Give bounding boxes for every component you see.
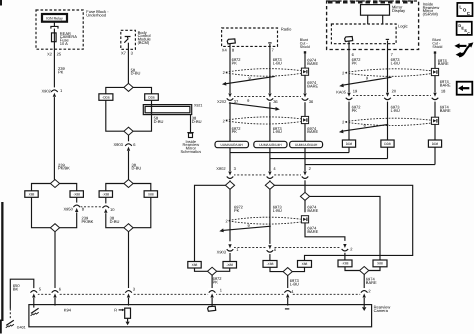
svg-text:PK: PK — [352, 108, 358, 113]
svg-text:L-BU: L-BU — [391, 108, 400, 113]
splice loop2 bottom — [124, 224, 133, 232]
svg-text:18: 18 — [441, 89, 446, 94]
svg-text:Shield: Shield — [300, 45, 310, 49]
svg-text:PK: PK — [232, 129, 238, 134]
wire loop4 right branch — [275, 185, 413, 260]
off-page terminator — [187, 132, 193, 134]
svg-text:Radio: Radio — [281, 27, 292, 32]
wire to -X88 loop3 — [229, 253, 231, 262]
wire 6974 BARE to camera pin 2 — [363, 275, 365, 289]
svg-text:-X88: -X88 — [267, 262, 274, 266]
svg-text:BARE: BARE — [440, 108, 451, 113]
wire to camera pin 3 — [128, 232, 130, 289]
wire DD6 down — [133, 100, 151, 131]
svg-text:BARE: BARE — [307, 83, 318, 88]
camera internal ground — [31, 308, 39, 316]
twist arrow 9 (mid lower) — [229, 103, 277, 109]
scan mark top left — [0, 0, 2, 6]
wire -DD6 down — [106, 100, 124, 131]
wire loop2 left down — [106, 197, 124, 227]
nav icon back — [457, 82, 473, 95]
svg-text:X88: X88 — [192, 263, 198, 267]
svg-text:(ISRVM): (ISRVM) — [423, 12, 439, 17]
ISRVM box — [327, 1, 419, 50]
svg-text:X903: X903 — [217, 249, 227, 254]
BCM box — [121, 30, 136, 49]
camera connector row dashes — [34, 293, 364, 295]
shield tap square (bottom) — [301, 216, 308, 223]
twisted pair dashes (mid upper) — [226, 69, 301, 77]
svg-text:PK: PK — [58, 69, 64, 74]
nav icon DESC — [457, 22, 472, 35]
wire X902-4 to splice — [269, 180, 271, 181]
wire 6972 PK (mirror) — [348, 44, 350, 93]
camera minus pin — [285, 308, 289, 310]
twist arrow 9 (right second) — [342, 124, 388, 131]
twisted pair dashes (bottom) — [229, 217, 301, 224]
fuse F (REAR CAMERA Fuse 10 A) — [52, 33, 57, 42]
wire 38 D-BU stub to mirror schematics — [190, 115, 192, 133]
relay contact pins — [51, 22, 58, 29]
connector X903 pin 6 (bottom row) — [266, 245, 274, 255]
svg-text:Shield: Shield — [432, 45, 442, 49]
splice loop5 rejoin — [360, 267, 369, 275]
wire loop1 left down — [32, 197, 51, 227]
scan mark bottom left — [0, 320, 2, 334]
svg-text:10 A: 10 A — [60, 41, 68, 46]
svg-text:Display: Display — [392, 8, 405, 13]
connector X903 pin 6 — [125, 141, 133, 151]
connector -X88 (loop3 right) — [223, 262, 237, 269]
BCM driver switch — [124, 37, 130, 43]
svg-text:BARE: BARE — [440, 82, 451, 87]
svg-text:PK: PK — [213, 280, 219, 285]
wire 6972 PK (radio) — [229, 46, 231, 93]
wire loop5 branch to rejoin — [369, 267, 380, 271]
svg-text:X921: X921 — [194, 104, 202, 108]
shield tap square (mid second) — [301, 116, 308, 123]
twist arrow 9 (right upper) — [343, 77, 392, 85]
wire loop4 main to rejoin — [270, 267, 283, 271]
connector X88 (loop4 branch) — [298, 261, 312, 268]
wire loop1 right — [60, 184, 77, 191]
svg-text:L-BU: L-BU — [391, 60, 400, 65]
svg-text:Schematics: Schematics — [180, 149, 201, 154]
svg-text:D-BU: D-BU — [154, 119, 164, 124]
svg-text:D-BU: D-BU — [132, 166, 142, 171]
connector row X202 dashes — [234, 96, 302, 98]
logic minus pin — [386, 38, 389, 40]
shield tap square (mid upper) — [301, 68, 308, 75]
svg-text:C: C — [467, 31, 470, 36]
connector camera pin 5 — [30, 288, 38, 298]
splice loop4 top — [265, 181, 274, 189]
svg-text:X88: X88 — [377, 262, 383, 266]
wire 6974 BARE to X903 pin 2 — [305, 223, 345, 241]
svg-text:X88: X88 — [302, 262, 308, 266]
svg-text:DD6: DD6 — [148, 95, 155, 99]
wire to DD6 — [133, 87, 151, 93]
connector X921 bank — [143, 105, 191, 115]
mirror display unit — [361, 5, 390, 16]
svg-text:BK: BK — [13, 286, 19, 291]
wire loop3 left to rejoin — [195, 268, 208, 271]
wire 650 BK ground path — [10, 279, 34, 308]
svg-text:X902: X902 — [41, 88, 51, 93]
connector -X88 (loop4 main) — [263, 261, 277, 268]
connector -DD6 — [99, 94, 113, 101]
svg-text:D-BU: D-BU — [131, 71, 141, 76]
svg-text:PK: PK — [232, 60, 238, 65]
wire 6973 L-BU (mirror) — [387, 44, 389, 93]
connector -X88 (loop5 main) — [338, 260, 352, 267]
wires option blocks to X902 — [229, 148, 231, 172]
option block UUM/UUR/U4H 3 — [290, 141, 323, 147]
svg-text:R: R — [114, 307, 117, 312]
wire loop5 right branch — [310, 196, 380, 260]
wires DD8 down to merges — [348, 147, 350, 152]
connector KA05 pin 20 — [384, 92, 392, 102]
wires KA05 to DD8 — [348, 102, 350, 140]
wire loop3 main down — [229, 189, 231, 241]
splice loop5 top — [300, 192, 309, 200]
wires X202 to option blocks — [229, 102, 231, 141]
svg-text:20: 20 — [392, 89, 397, 94]
wire loop3 right to rejoin — [217, 268, 230, 271]
connector camera pin 3 — [125, 288, 133, 298]
svg-text:-X88: -X88 — [342, 262, 349, 266]
svg-text:L-BU: L-BU — [273, 208, 282, 213]
svg-text:L-BU: L-BU — [290, 281, 299, 286]
connector camera pin 4 — [284, 288, 292, 298]
svg-text:-X88: -X88 — [102, 192, 109, 196]
wire 6974 BARE (right) blunt end — [434, 51, 436, 53]
wire 239 PK/BK — [53, 97, 55, 180]
splice loop1 bottom — [50, 224, 59, 232]
svg-text:Underhood: Underhood — [86, 13, 106, 18]
connector -X88 (loop1 right) — [70, 191, 83, 198]
svg-text:IGN Relay: IGN Relay — [46, 16, 63, 20]
wire loop1 left — [32, 184, 51, 191]
svg-text:X903: X903 — [114, 142, 124, 147]
wire loop4 branch to rejoin — [292, 267, 304, 271]
wire loop1 right down — [60, 197, 77, 227]
svg-text:UUM/UUR/U4H: UUM/UUR/U4H — [295, 143, 318, 147]
camera video input arrow — [362, 307, 366, 311]
svg-text:X88: X88 — [29, 192, 35, 196]
wire DD8-3 merge — [305, 164, 435, 166]
wire loop4 main down — [269, 189, 271, 244]
svg-text:KA05: KA05 — [336, 89, 347, 94]
svg-text:D-BU: D-BU — [192, 119, 202, 124]
wire loop5 main down — [304, 200, 306, 212]
connector X902 pin 1 — [50, 87, 58, 97]
splice loop1 top — [50, 180, 59, 188]
connector DD6 — [145, 94, 159, 101]
svg-text:K94: K94 — [64, 308, 72, 313]
shield tap square (right second) — [431, 117, 438, 124]
wire DD8-2 merge — [270, 158, 388, 160]
svg-text:Camera: Camera — [374, 308, 389, 313]
connector DD8 1 — [342, 140, 355, 147]
connector X88 (loop2 right) — [144, 191, 157, 198]
svg-text:36: 36 — [273, 99, 278, 104]
splice loop3 top — [225, 181, 234, 189]
wire 6972 PK to camera pin 1 — [211, 275, 213, 288]
camera pin stubs into box — [33, 298, 35, 308]
svg-text:X950: X950 — [64, 207, 74, 212]
twisted pair dashes (mid second) — [226, 117, 301, 124]
svg-text:19: 19 — [353, 89, 358, 94]
connector -X88 (loop2 left) — [99, 191, 112, 198]
splice node (DD6 rejoin) — [124, 127, 133, 135]
svg-text:X902: X902 — [216, 166, 226, 171]
option block UUM/UUR/U4H 1 — [215, 141, 249, 147]
svg-text:UUM/UUR/U4H: UUM/UUR/U4H — [221, 143, 244, 147]
connector KA05 pin 19 — [345, 92, 353, 102]
connector X902 pin 2 — [301, 171, 309, 181]
logic driver icon — [345, 37, 353, 42]
wire 58 D-BU — [127, 43, 129, 84]
connector X202 pin 37 — [226, 93, 234, 103]
svg-text:BARE: BARE — [366, 280, 377, 285]
ground G401 — [6, 320, 14, 328]
wire loop2 right down — [133, 197, 151, 227]
svg-text:DD8: DD8 — [384, 142, 391, 146]
svg-text:X88: X88 — [148, 192, 154, 196]
svg-text:BARE: BARE — [307, 208, 318, 213]
svg-text:X7: X7 — [121, 50, 127, 55]
svg-text:DD8: DD8 — [346, 142, 353, 146]
wire 6974 BARE (mid) blunt end — [304, 51, 306, 53]
wire loop2 left — [106, 184, 124, 191]
connector camera pin 2 — [360, 288, 368, 298]
scan bar left — [1, 202, 3, 321]
splice node (DD6 split) — [124, 83, 133, 91]
wire 6973 L-BU to camera pin 4 — [287, 276, 289, 289]
svg-text:-DD6: -DD6 — [102, 95, 110, 99]
wire 6973 L-BU (radio) — [269, 46, 271, 93]
svg-text:BARE: BARE — [438, 61, 449, 66]
svg-text:-X88: -X88 — [73, 192, 80, 196]
svg-text:UUM/UUR/U4H: UUM/UUR/U4H — [259, 143, 282, 147]
wire X902-3 to splice — [229, 180, 231, 181]
connector row KA05 dashes — [353, 95, 432, 97]
twist arrow 9 (mid upper) — [225, 76, 274, 83]
connector X202 pin 36 shield — [301, 93, 309, 103]
wire loop2 right — [133, 184, 151, 191]
svg-text:PK/BK: PK/BK — [82, 219, 94, 224]
wire below tap — [304, 75, 306, 93]
svg-text:X4: X4 — [222, 47, 228, 52]
connector camera pin 1 — [208, 288, 216, 298]
wire to -X88 loop5 — [344, 253, 346, 260]
svg-text:D-BU: D-BU — [110, 219, 120, 224]
option block UUM/UUR/U4H 2 — [254, 141, 287, 147]
svg-text:25: 25 — [57, 51, 62, 56]
logic block — [331, 24, 396, 44]
connector row X950 dashes — [80, 206, 102, 208]
svg-text:-X88: -X88 — [226, 263, 233, 267]
connector X902 pin 4 — [266, 171, 274, 181]
connector DD8 3 — [428, 140, 441, 147]
svg-text:BARE: BARE — [307, 129, 318, 134]
connector KA05 pin 18 — [431, 92, 439, 102]
wire 239 PK — [53, 42, 55, 88]
twisted pair dashes (right upper) — [345, 69, 431, 77]
svg-text:L-BU: L-BU — [273, 129, 282, 134]
wire to camera pin 6 — [54, 232, 56, 289]
ISRVM box top thick edge — [328, 1, 413, 4]
svg-text:36: 36 — [309, 99, 314, 104]
twisted pair dashes (right second) — [345, 118, 431, 125]
wire below tap — [434, 76, 436, 93]
svg-text:G401: G401 — [17, 326, 26, 330]
wire logic pin 6 stub — [348, 42, 350, 44]
fuse block underhood box — [36, 10, 83, 49]
nav icon LOC — [457, 3, 472, 16]
radio box — [222, 28, 278, 46]
relay K (IGN Relay) — [42, 14, 67, 22]
connector X202 pin 36 — [266, 93, 274, 103]
twist arrow 9 (bottom) — [223, 226, 271, 230]
wire DD8-1 merge — [230, 152, 349, 154]
wire 38 D-BU down — [128, 151, 130, 180]
connector X902 pin 3 — [226, 171, 234, 181]
svg-text:Logic: Logic — [398, 24, 408, 29]
wire X902-2 to splice — [304, 180, 306, 192]
wire loop3 left branch — [195, 185, 226, 261]
wire relay to fuse — [53, 29, 55, 33]
connector X88 (loop1 left) — [25, 191, 38, 198]
radio minus pin — [268, 42, 271, 44]
connector camera pin 6 — [51, 288, 59, 298]
wire radio pin 8 stub — [229, 44, 231, 47]
connector X88 (loop5 branch) — [373, 260, 387, 267]
radio display driver icon — [227, 39, 235, 44]
splice loop4 rejoin — [283, 268, 292, 276]
connector X950 pin 10 — [102, 203, 110, 213]
nav icon branch arrows — [454, 42, 473, 57]
wire to X903 — [128, 135, 130, 142]
svg-text:(BCM): (BCM) — [138, 40, 150, 45]
wire to -DD6 — [106, 87, 124, 93]
wire to -X88 loop4 — [269, 254, 271, 260]
wire loop5 main to rejoin — [345, 267, 360, 271]
svg-text:PK/BK: PK/BK — [58, 166, 70, 171]
splice loop3 rejoin — [208, 267, 217, 275]
svg-text:X202: X202 — [217, 99, 227, 104]
rearview camera module box — [29, 305, 372, 327]
svg-text:BARE: BARE — [307, 229, 318, 234]
connector DD8 2 — [381, 140, 394, 147]
svg-text:DD8: DD8 — [432, 142, 439, 146]
connector X903 pin 1 — [226, 244, 234, 254]
connector X903 pin 2 — [341, 244, 349, 254]
camera image sensor icon — [208, 306, 216, 311]
shield tap square (right upper) — [431, 68, 438, 75]
svg-text:X2: X2 — [47, 51, 53, 56]
wire display stubs — [367, 15, 369, 24]
connector X88 (loop3 left) — [188, 262, 201, 269]
splice loop2 top — [124, 180, 133, 188]
connector X950 pin 8 — [73, 203, 81, 213]
svg-text:L-BU: L-BU — [273, 60, 282, 65]
svg-text:PK: PK — [234, 208, 240, 213]
connector row X903 dashes — [234, 247, 341, 249]
svg-text:PK: PK — [352, 60, 358, 65]
connector row X902 dashes — [234, 174, 302, 176]
svg-text:10: 10 — [110, 207, 115, 212]
svg-text:BARE: BARE — [307, 61, 318, 66]
